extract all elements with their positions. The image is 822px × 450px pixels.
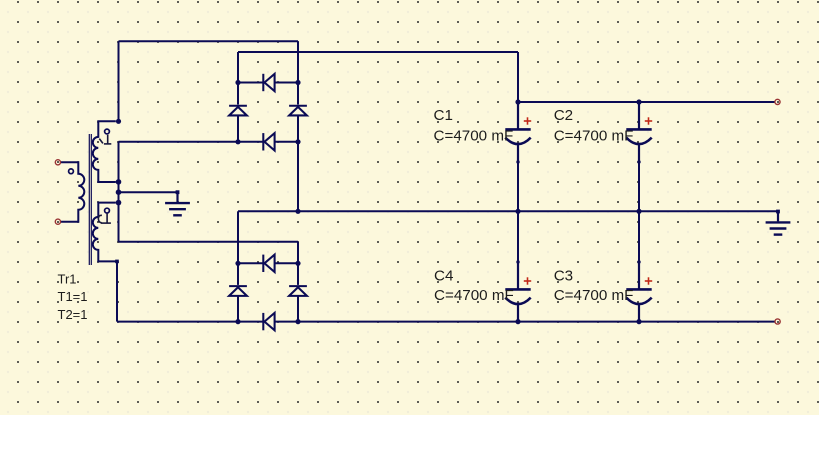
capacitor C3 bbox=[626, 262, 652, 322]
terminal port P4 bbox=[775, 319, 780, 324]
capacitor C4 bbox=[505, 262, 531, 322]
diode D1 top of upper bridge bbox=[263, 74, 274, 91]
diode D3 right of upper bridge bbox=[289, 106, 307, 116]
pin C4 top bbox=[516, 260, 519, 263]
terminal port P1 bbox=[55, 160, 60, 165]
node C1 top bbox=[515, 99, 520, 104]
node C2 top bbox=[636, 99, 641, 104]
pin C3 top bbox=[637, 260, 640, 263]
svg-text:C=4700 mF: C=4700 mF bbox=[554, 128, 634, 145]
terminal port P3 bbox=[775, 99, 780, 104]
top bridge left leg wires bbox=[237, 83, 239, 105]
ground at mid rail right bbox=[766, 210, 791, 235]
svg-text:C=4700 mF: C=4700 mF bbox=[554, 287, 634, 304]
pin C2 bottom bbox=[637, 160, 640, 163]
wire center tap down bbox=[118, 203, 120, 242]
wire bottom rail to output terminal bbox=[275, 321, 775, 323]
top bridge right leg wires bbox=[297, 83, 299, 105]
wire from bridge node A to C1 column bbox=[238, 51, 518, 53]
transformer Tr1 winding number 2 bbox=[98, 213, 111, 223]
wire top from transformer to top bridge bbox=[119, 40, 299, 42]
node mid rail C1 bbox=[515, 209, 520, 214]
wire from bridge wire down to center tap bbox=[118, 142, 120, 182]
svg-text:Tr1: Tr1 bbox=[58, 272, 77, 287]
transformer Tr1 secondary 1 phase dot bbox=[105, 129, 110, 134]
node mid rail at bridge bbox=[295, 209, 300, 214]
svg-text:C1: C1 bbox=[434, 107, 453, 124]
wire vertical down to transformer secondary 1 top bbox=[118, 41, 120, 121]
ground at center tap bbox=[165, 190, 190, 215]
transformer Tr1 secondary winding 1 bbox=[93, 121, 116, 182]
wire from top bridge node D down to mid rail bbox=[297, 142, 299, 212]
wire down to C1 top node bbox=[517, 52, 519, 102]
node mid rail C2 bbox=[636, 209, 641, 214]
wire bottom rail left of bridge bbox=[117, 321, 263, 323]
wire C1 bottom to mid rail bbox=[517, 162, 519, 211]
wire mid rail to C3 top bbox=[638, 211, 640, 262]
lower bridge right leg wires bbox=[297, 263, 299, 285]
node upper bridge A bbox=[235, 80, 240, 85]
wire center tap vertical bbox=[118, 182, 120, 203]
wire C2 bottom to mid rail bbox=[638, 162, 640, 211]
terminal port P2 bbox=[55, 219, 60, 224]
node bottom rail C3 bbox=[636, 319, 641, 324]
node center tap middle bbox=[116, 189, 122, 195]
diode D5 top of lower bridge bbox=[263, 255, 274, 272]
node transformer secondary 1 top bbox=[116, 119, 121, 124]
wire from transformer secondary 2 bottom down bbox=[116, 261, 118, 321]
wire top rail to output terminal bbox=[518, 101, 775, 103]
svg-text:T2=1: T2=1 bbox=[58, 307, 88, 322]
capacitor C1 bbox=[505, 102, 531, 162]
node center tap upper bbox=[116, 179, 122, 185]
node center tap lower bbox=[116, 200, 122, 206]
wire down to top bridge node B bbox=[297, 41, 299, 82]
diode D8 bottom of lower bridge bbox=[263, 313, 274, 330]
transformer Tr1 winding number 1 bbox=[99, 135, 111, 144]
svg-text:C=4700 mF: C=4700 mF bbox=[434, 287, 514, 304]
node lower bridge D bbox=[295, 319, 300, 324]
transformer Tr1 core bbox=[88, 134, 90, 265]
capacitor C2 bbox=[626, 102, 652, 162]
diode D2 left of upper bridge bbox=[229, 106, 247, 116]
node upper bridge B bbox=[295, 80, 300, 85]
wire down from mid rail to lower bridge node A bbox=[237, 211, 239, 263]
wire down to top bridge node A bbox=[237, 52, 239, 83]
node upper bridge D bbox=[295, 139, 300, 144]
pin C1 bottom bbox=[516, 160, 519, 163]
diode D7 right of lower bridge bbox=[289, 286, 307, 296]
node lower bridge B bbox=[295, 261, 300, 266]
transformer Tr1 secondary 2 phase dot bbox=[105, 208, 110, 213]
wire middle rail bbox=[238, 210, 778, 212]
wire mid rail to C4 top bbox=[517, 211, 519, 262]
node upper bridge C bbox=[235, 139, 240, 144]
svg-text:T1=1: T1=1 bbox=[58, 289, 88, 304]
top bridge bottom row wire to center tap bbox=[119, 141, 264, 143]
svg-text:C4: C4 bbox=[434, 268, 453, 285]
node bottom rail C4 bbox=[515, 319, 520, 324]
svg-text:C=4700 mF: C=4700 mF bbox=[434, 128, 514, 145]
diode D6 left of lower bridge bbox=[229, 286, 247, 296]
transformer Tr1 secondary winding 2 bbox=[93, 203, 116, 262]
top bridge top row wires bbox=[238, 82, 263, 84]
svg-text:C3: C3 bbox=[554, 268, 573, 285]
lower bridge left leg wires bbox=[237, 263, 239, 285]
pin transformer secondary 2 bottom bbox=[115, 260, 119, 264]
transformer Tr1 primary winding bbox=[61, 162, 85, 221]
wire center tap to ground bbox=[119, 191, 178, 193]
node lower bridge C bbox=[235, 319, 240, 324]
diode D4 bottom of upper bridge bbox=[263, 133, 274, 150]
node lower bridge A bbox=[235, 261, 240, 266]
wire down to lower bridge node B bbox=[297, 242, 299, 264]
lower bridge top row wires bbox=[238, 262, 263, 264]
svg-text:C2: C2 bbox=[554, 107, 573, 124]
transformer Tr1 primary phase dot bbox=[69, 169, 74, 174]
wire across to lower bridge node B bbox=[119, 241, 299, 243]
